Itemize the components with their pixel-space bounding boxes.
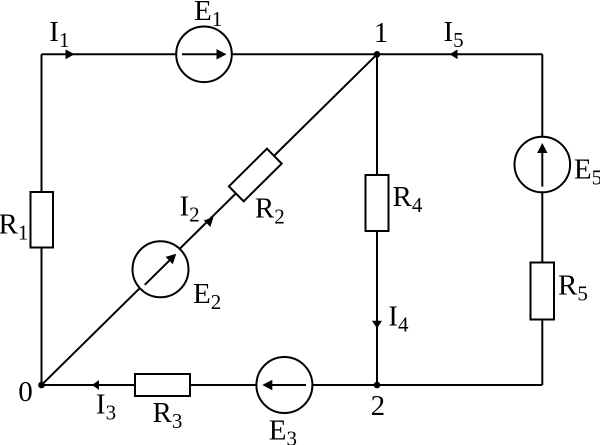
resistor R2 (rotated)	[229, 149, 282, 202]
svg-text:I4: I4	[388, 301, 409, 337]
svg-text:I5: I5	[444, 16, 464, 52]
svg-text:R3: R3	[153, 397, 183, 433]
svg-text:R1: R1	[0, 208, 28, 244]
resistor R5	[531, 263, 555, 320]
wire top (node0 corner to top-right corner through E1)	[42, 53, 543, 55]
node 1 dot	[374, 51, 381, 58]
svg-text:1: 1	[374, 17, 389, 49]
node 0 dot	[38, 382, 45, 389]
svg-text:2: 2	[371, 390, 386, 422]
svg-text:E3: E3	[269, 415, 297, 445]
resistor R1	[31, 192, 54, 248]
current arrow I3	[92, 380, 99, 390]
wire right (top-right corner down to bottom-right corner)	[541, 54, 543, 385]
wire bottom (node 0 to bottom-right corner)	[42, 384, 543, 386]
svg-text:I1: I1	[49, 16, 69, 52]
source E3	[256, 357, 312, 413]
svg-text:I3: I3	[96, 389, 116, 425]
wire left (top-left corner down to node 0)	[41, 54, 43, 385]
svg-text:E1: E1	[194, 0, 222, 31]
svg-text:R2: R2	[255, 192, 285, 228]
current arrow I4	[372, 321, 382, 329]
current arrow I5	[450, 49, 458, 59]
current arrow I1	[66, 49, 75, 59]
svg-text:R5: R5	[558, 270, 588, 306]
source E5	[515, 137, 571, 193]
node 2 dot	[374, 382, 381, 389]
wire middle vertical (node 1 to node 2)	[376, 54, 378, 385]
current arrow I2	[204, 217, 214, 227]
resistor R4	[366, 175, 389, 231]
source E2	[133, 241, 189, 297]
svg-text:E2: E2	[193, 278, 221, 314]
svg-text:I2: I2	[180, 191, 200, 227]
svg-text:R4: R4	[393, 181, 423, 217]
source E1	[176, 27, 232, 83]
resistor R3	[135, 374, 190, 396]
svg-text:0: 0	[18, 376, 33, 408]
wire diagonal (node 0 to node 1)	[42, 54, 378, 385]
svg-text:E5: E5	[574, 153, 600, 189]
